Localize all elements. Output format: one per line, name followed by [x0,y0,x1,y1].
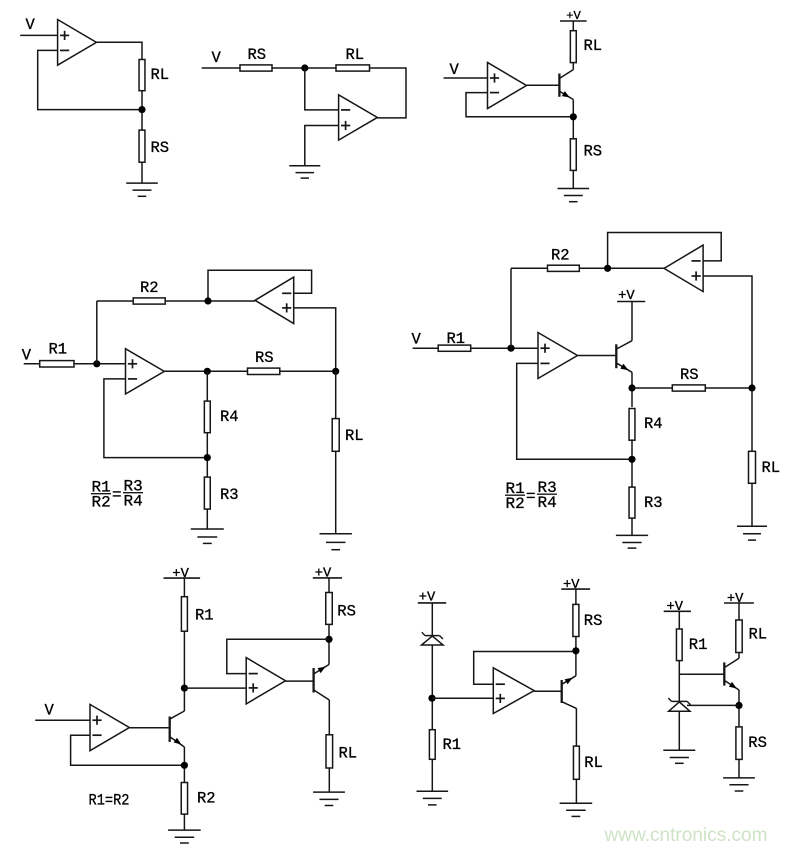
svg-text:+V: +V [566,9,581,23]
svg-text:V: V [212,49,222,67]
svg-text:R2: R2 [506,495,525,513]
svg-text:R1: R1 [49,341,68,359]
svg-text:RS: RS [151,139,170,157]
svg-text:www.cntronics.com: www.cntronics.com [603,825,767,846]
svg-text:V: V [26,16,36,34]
svg-text:=: = [526,488,536,506]
svg-text:+V: +V [667,600,684,615]
svg-text:+V: +V [727,592,744,607]
svg-text:RL: RL [749,626,768,644]
svg-text:R2: R2 [92,494,111,512]
svg-text:R4: R4 [644,415,663,433]
svg-text:R1=R2: R1=R2 [89,792,130,810]
svg-text:R1: R1 [447,330,466,348]
svg-text:RS: RS [255,349,274,367]
svg-text:+V: +V [419,591,436,606]
svg-text:RS: RS [748,734,767,752]
svg-text:R3: R3 [220,486,239,504]
svg-text:V: V [45,702,55,720]
svg-text:+V: +V [618,289,635,304]
svg-text:R3: R3 [644,494,663,512]
svg-text:R2: R2 [197,790,216,808]
svg-text:V: V [450,61,460,79]
svg-text:R2: R2 [551,247,570,265]
svg-text:R1: R1 [689,636,708,654]
svg-text:RL: RL [584,754,603,772]
svg-text:=: = [112,486,122,504]
svg-text:RL: RL [345,427,364,445]
svg-text:RL: RL [151,66,170,84]
svg-text:RS: RS [584,612,603,630]
svg-text:RS: RS [248,46,267,64]
svg-text:RL: RL [762,459,781,477]
svg-text:+V: +V [563,578,580,593]
svg-text:R4: R4 [124,493,143,511]
svg-text:R1: R1 [443,736,462,754]
svg-text:RS: RS [337,603,356,621]
svg-text:RS: RS [584,143,603,161]
svg-text:RS: RS [680,366,699,384]
svg-text:V: V [412,331,422,349]
svg-text:R2: R2 [140,279,159,297]
svg-text:R4: R4 [538,494,557,512]
svg-text:RL: RL [339,745,358,763]
svg-text:R4: R4 [220,408,239,426]
svg-text:R1: R1 [195,607,214,625]
svg-text:+V: +V [172,567,189,582]
svg-text:V: V [22,347,32,365]
svg-text:RL: RL [584,37,603,55]
svg-text:RL: RL [346,46,365,64]
